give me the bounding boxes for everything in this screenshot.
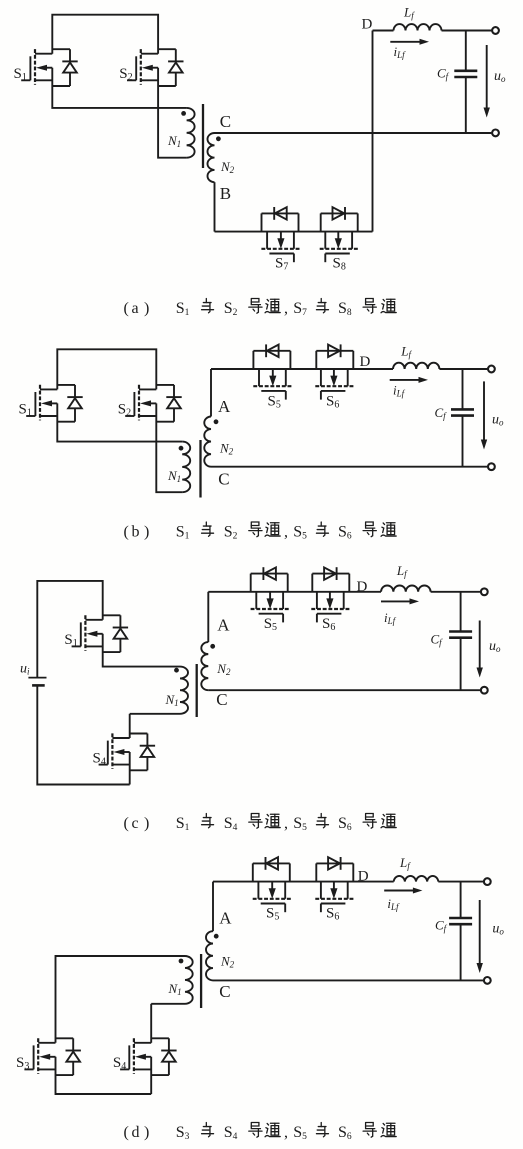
svg-text:,: ,: [284, 300, 288, 317]
svg-text:D: D: [362, 17, 373, 33]
svg-text:S4: S4: [224, 815, 238, 833]
svg-text:Lf: Lf: [400, 344, 412, 360]
svg-text:S5: S5: [293, 524, 307, 542]
svg-text:iLf: iLf: [384, 610, 397, 626]
svg-text:S6: S6: [322, 616, 335, 633]
svg-text:S3: S3: [16, 1055, 29, 1072]
svg-text:S2: S2: [118, 402, 131, 419]
svg-text:S1: S1: [176, 524, 190, 542]
svg-text:A: A: [217, 616, 230, 635]
svg-text:(: (: [124, 300, 129, 317]
svg-text:S3: S3: [176, 1124, 190, 1142]
svg-text:N2: N2: [216, 661, 231, 677]
svg-text:Cf: Cf: [435, 918, 448, 934]
svg-text:iLf: iLf: [394, 44, 407, 60]
svg-text:N1: N1: [165, 692, 179, 708]
svg-text:Lf: Lf: [403, 5, 415, 21]
svg-text:A: A: [218, 397, 231, 416]
svg-text:S6: S6: [326, 393, 339, 410]
svg-text:S5: S5: [293, 815, 307, 833]
svg-text:S5: S5: [293, 1124, 307, 1142]
svg-text:Lf: Lf: [396, 563, 408, 579]
svg-text:B: B: [220, 184, 231, 203]
svg-text:S5: S5: [268, 393, 281, 410]
svg-text:): ): [144, 300, 149, 317]
svg-text:C: C: [216, 690, 227, 709]
svg-text:S2: S2: [224, 524, 238, 542]
svg-text:,: ,: [284, 524, 288, 541]
svg-text:d: d: [132, 1124, 140, 1141]
svg-text:S2: S2: [119, 66, 132, 83]
svg-text:S1: S1: [14, 66, 27, 83]
svg-text:S8: S8: [333, 256, 346, 273]
svg-text:S7: S7: [275, 256, 288, 273]
svg-text:C: C: [219, 982, 230, 1001]
svg-text:N2: N2: [220, 954, 235, 970]
svg-text:): ): [144, 815, 149, 832]
svg-text:a: a: [132, 300, 139, 317]
svg-text:S6: S6: [338, 815, 352, 833]
svg-text:(: (: [124, 1124, 129, 1141]
svg-text:N2: N2: [220, 159, 235, 175]
svg-text:uo: uo: [492, 922, 504, 937]
svg-text:N1: N1: [168, 981, 182, 997]
svg-text:S1: S1: [176, 300, 190, 318]
svg-text:N1: N1: [167, 468, 181, 484]
svg-text:iLf: iLf: [387, 896, 400, 912]
svg-text:C: C: [220, 112, 231, 131]
svg-text:S4: S4: [113, 1055, 126, 1072]
svg-text:C: C: [218, 470, 229, 489]
svg-text:S6: S6: [338, 1124, 352, 1142]
svg-text:c: c: [132, 815, 139, 832]
svg-text:D: D: [357, 579, 368, 595]
svg-text:(: (: [124, 524, 129, 541]
svg-text:Cf: Cf: [431, 632, 444, 648]
svg-text:S6: S6: [326, 906, 339, 923]
svg-text:S4: S4: [224, 1124, 238, 1142]
svg-text:uo: uo: [492, 413, 504, 428]
svg-text:S1: S1: [64, 632, 77, 649]
svg-text:S4: S4: [93, 750, 106, 767]
svg-text:uo: uo: [489, 639, 501, 654]
svg-text:Cf: Cf: [437, 66, 450, 82]
svg-text:S2: S2: [224, 300, 238, 318]
svg-text:S1: S1: [19, 402, 32, 419]
svg-text:S1: S1: [176, 815, 190, 833]
svg-text:Cf: Cf: [435, 405, 448, 421]
svg-text:,: ,: [284, 815, 288, 832]
svg-text:N1: N1: [167, 133, 181, 149]
svg-text:S5: S5: [264, 616, 277, 633]
svg-text:(: (: [124, 815, 129, 832]
svg-text:N2: N2: [219, 441, 234, 457]
svg-text:,: ,: [284, 1124, 288, 1141]
svg-text:S5: S5: [266, 906, 279, 923]
svg-text:b: b: [132, 524, 140, 541]
svg-text:iLf: iLf: [393, 383, 406, 399]
svg-text:D: D: [360, 354, 371, 370]
svg-text:ui: ui: [20, 662, 30, 677]
svg-text:S7: S7: [293, 300, 307, 318]
svg-text:): ): [144, 524, 149, 541]
svg-text:Lf: Lf: [399, 855, 411, 871]
svg-text:S8: S8: [338, 300, 352, 318]
svg-text:uo: uo: [494, 69, 506, 84]
svg-text:S6: S6: [338, 524, 352, 542]
svg-text:D: D: [358, 869, 369, 885]
svg-text:): ): [144, 1124, 149, 1141]
svg-text:A: A: [219, 909, 232, 928]
